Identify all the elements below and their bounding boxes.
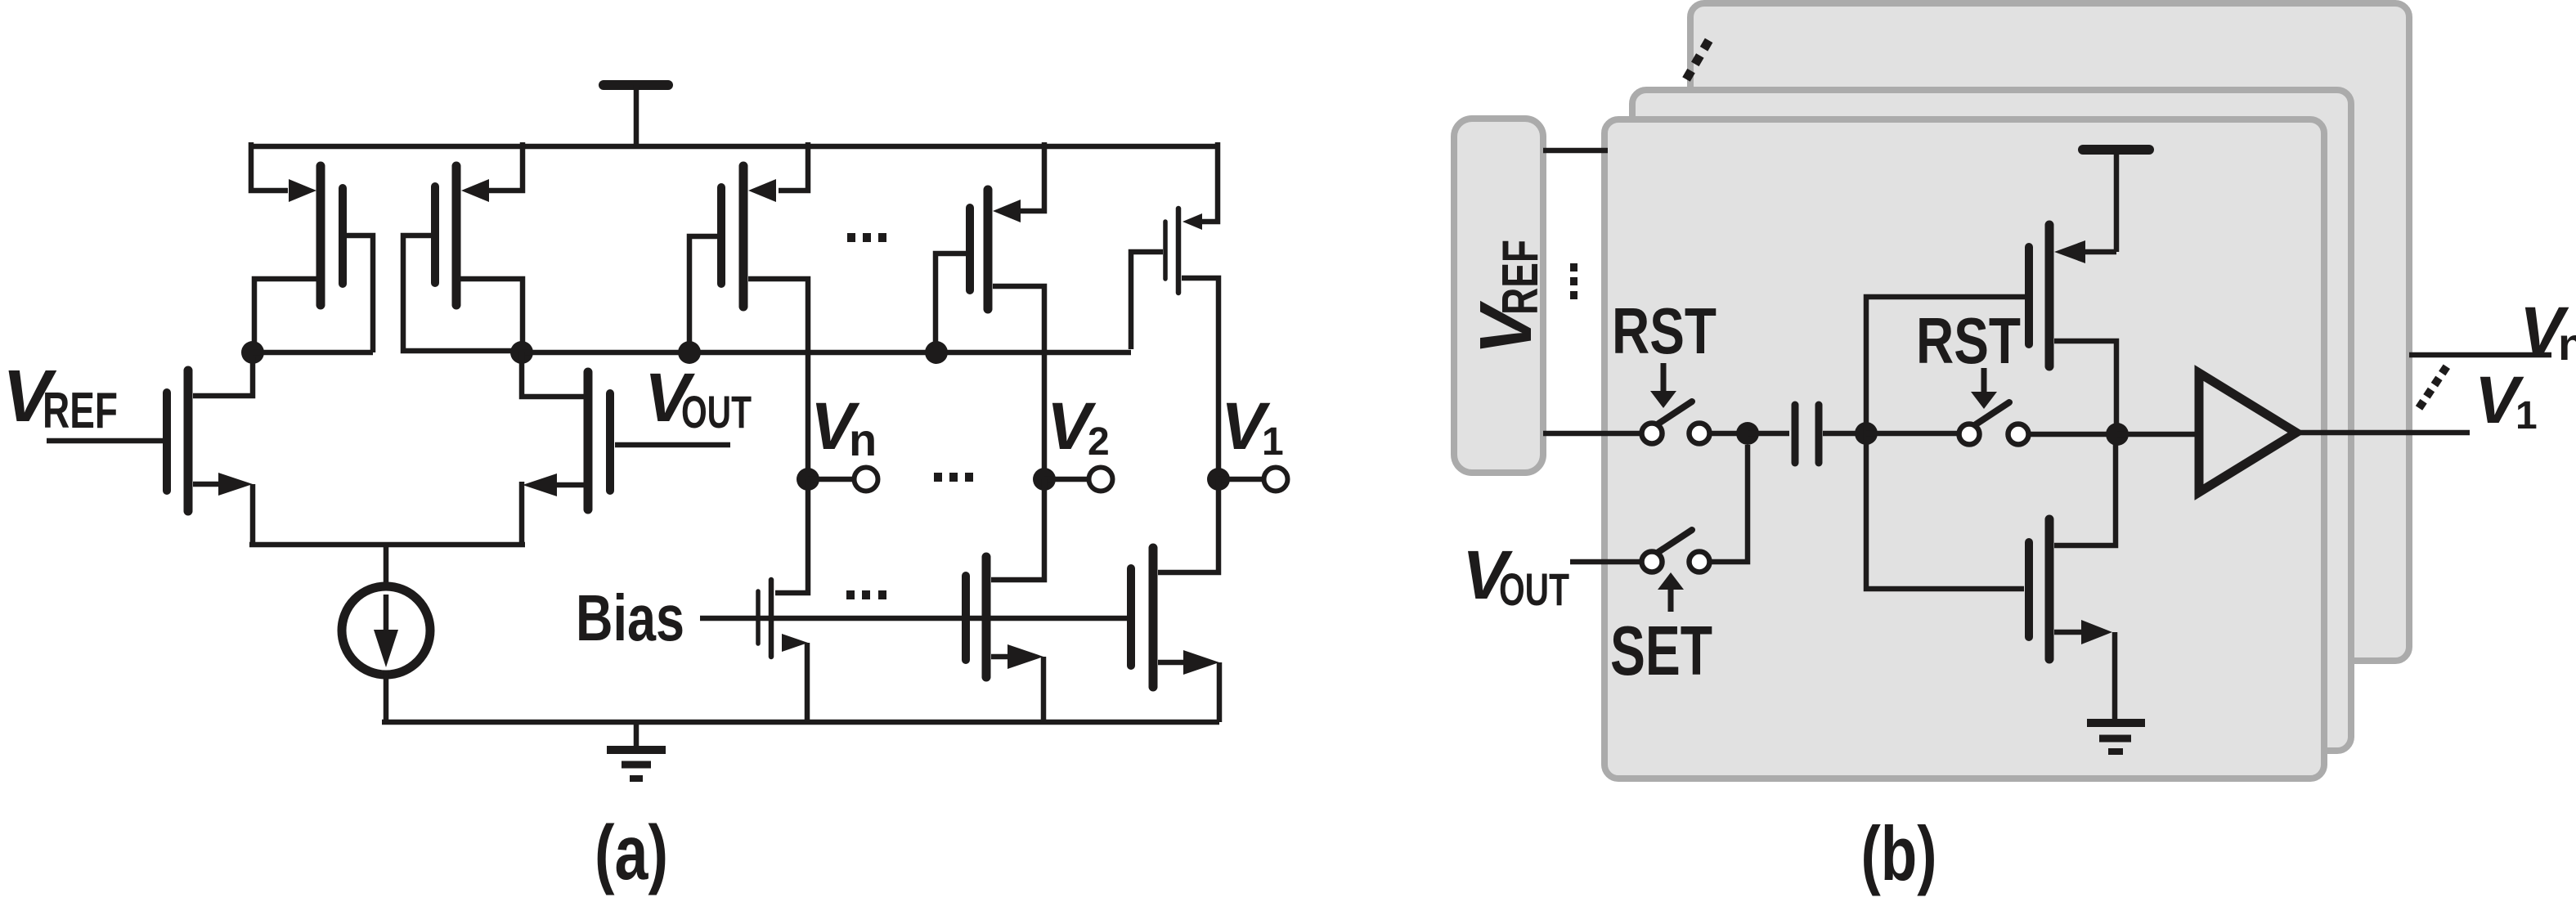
transistor M12 source drop: [2112, 632, 2118, 723]
node Vn dot: [797, 468, 819, 491]
switch S3 blade: [1658, 530, 1692, 552]
feedback wire top (node D to M11 gate): [1866, 297, 2025, 433]
transistor M3 source drop: [250, 484, 256, 545]
transistor M7 channel bar: [1176, 209, 1182, 293]
transistor M12 source arrow: [2081, 620, 2112, 644]
ellipsis between M5 and M6: [847, 233, 855, 242]
svg-text:OUT: OUT: [1499, 563, 1569, 615]
transistor M4 (NMOS, gate VOUT) drain wire: [522, 352, 584, 397]
transistor M10 source drop: [1217, 662, 1223, 722]
card (front cell): [1604, 119, 2324, 779]
transistor M11 drain wire: [2054, 341, 2116, 425]
node V1 terminal wire: [1218, 477, 1264, 482]
node V2 terminal wire: [1044, 477, 1089, 482]
node V1 open terminal: [1264, 468, 1288, 491]
transistor M1 drain wire: [254, 279, 317, 349]
transistor M8 (NMOS, Vn branch) drain wire: [775, 479, 808, 593]
gate bus junction dot 2: [925, 341, 948, 364]
wire node D to RST switch 2: [1866, 431, 1959, 437]
node D junction dot: [1855, 422, 1878, 445]
transistor M8 channel bar: [769, 580, 774, 657]
transistor M3 drain wire: [193, 357, 253, 396]
wire VREF to card top: [1543, 148, 1608, 154]
transistor M5 source arrow: [748, 179, 776, 202]
wire node C to capacitor: [1748, 431, 1789, 437]
switch S1 right contact: [1690, 424, 1710, 444]
wire VREF to RST switch: [1543, 431, 1642, 437]
svg-text:RST: RST: [1612, 294, 1717, 367]
transistor M7 drain wire: [1182, 278, 1218, 473]
transistor M3 channel bar: [184, 370, 193, 511]
ground symbol (panel b): [2087, 719, 2145, 727]
transistor M10 source wire: [1158, 660, 1186, 666]
transistor M4 source drop: [519, 482, 525, 545]
transistor M9 gate bar: [962, 576, 970, 660]
svg-text:1: 1: [1262, 420, 1284, 464]
switch S3 right contact: [1690, 552, 1710, 572]
transistor M6 gate wire: [936, 254, 966, 348]
card (back replica): [1690, 3, 2409, 661]
svg-text:REF: REF: [1492, 240, 1549, 315]
dotted ellipsis (more cards, top-left): [1686, 38, 1710, 79]
wire S2 to node E: [2029, 432, 2108, 438]
node A junction dot: [241, 341, 264, 364]
svg-text:REF: REF: [43, 383, 118, 439]
node B junction dot: [510, 341, 533, 364]
buffer amplifier U1: [2199, 373, 2296, 492]
transistor M7 gate bar: [1163, 222, 1168, 279]
VDD supply symbol (panel b): [2083, 145, 2149, 155]
transistor M7 source arrow: [1183, 213, 1202, 230]
wire SET to node C: [1710, 445, 1748, 562]
transistor M1 gate bar: [339, 188, 347, 284]
transistor M8 gate bar: [756, 591, 761, 644]
transistor M12 (NMOS) drain wire: [2054, 443, 2116, 545]
switch S2 right contact: [2008, 424, 2029, 445]
transistor M10 (NMOS, V1 branch) drain wire: [1158, 479, 1218, 572]
capacitor C1: [1792, 405, 1799, 463]
transistor M6 source arrow: [993, 200, 1021, 222]
transistor M1 source arrow: [289, 179, 316, 202]
transistor M3 source arrow: [218, 473, 253, 496]
svg-text:2: 2: [1088, 420, 1110, 464]
transistor M12 channel bar: [2045, 519, 2054, 659]
transistor M10 gate bar: [1127, 568, 1135, 666]
ground symbol (panel a): [607, 722, 666, 779]
transistor M12 source wire: [2054, 630, 2081, 635]
wire tail to current source: [384, 545, 389, 588]
gate bus wire: [522, 350, 1131, 356]
transistor M11 source arrow: [2054, 240, 2085, 263]
transistor M2 drain wire: [460, 279, 523, 349]
transistor M11 (PMOS) source arrow wire: [2085, 249, 2116, 255]
transistor M11 channel bar: [2045, 225, 2054, 366]
svg-text:(b): (b): [1861, 810, 1937, 896]
power rail VDD (top): [251, 144, 1218, 150]
wire current source to ground rail: [384, 671, 389, 722]
svg-text:1: 1: [2515, 394, 2538, 438]
node E junction dot: [2106, 423, 2129, 446]
gate bus junction dot 1: [678, 341, 701, 364]
wire buffer output V1: [2296, 430, 2470, 436]
current source I1: [342, 586, 430, 675]
arrow RST left: [1661, 363, 1667, 393]
ellipsis between Vn and V2: [934, 473, 942, 482]
switch S3 SET left contact: [1642, 552, 1663, 572]
transistor M1 gate wire: [347, 236, 373, 352]
node V1 dot: [1207, 468, 1230, 491]
dotted ellipsis (outputs): [2419, 366, 2447, 408]
node Vn open terminal: [855, 468, 878, 491]
transistor M4 source arrow: [523, 473, 557, 496]
transistor M7 gate wire: [1131, 252, 1163, 349]
wire VOUT to SET switch: [1570, 559, 1642, 565]
label VREF (rotated): [1465, 240, 1549, 355]
node V2 open terminal: [1089, 468, 1113, 491]
svg-text:SET: SET: [1610, 613, 1712, 690]
wire output Vn: [2409, 352, 2551, 358]
transistor M4 gate bar: [606, 393, 614, 491]
svg-text:OUT: OUT: [681, 386, 752, 438]
wire Bias: [700, 616, 1131, 622]
transistor M4 gate stub wire: [615, 442, 730, 448]
wire node E to buffer: [2117, 432, 2199, 438]
transistor M3 source wire: [193, 482, 229, 487]
transistor M2 (PMOS) source wire: [489, 142, 523, 191]
svg-text:n: n: [2558, 318, 2576, 370]
switch S2 RST left contact: [1959, 424, 1980, 445]
svg-text:n: n: [849, 414, 877, 465]
transistor M9 channel bar: [982, 557, 991, 677]
transistor M6 (PMOS) source wire: [1015, 142, 1044, 211]
transistor M2 source arrow: [461, 179, 489, 202]
card (middle replica): [1632, 90, 2351, 751]
transistor M10 source arrow: [1183, 650, 1219, 675]
wire VREF input: [47, 438, 163, 444]
switch S2 blade: [1976, 402, 2009, 424]
node V2 dot: [1033, 468, 1056, 491]
transistor M8 source drop: [805, 643, 810, 722]
feedback wire bottom (node D to M12 gate): [1866, 433, 2024, 589]
transistor M5 gate wire: [689, 236, 717, 348]
VDD supply symbol: [604, 85, 668, 146]
transistor M6 gate bar: [966, 208, 974, 290]
arrow SET: [1658, 572, 1684, 590]
transistor M9 source drop: [1041, 657, 1047, 722]
vertical ellipsis near VREF: [1570, 263, 1577, 271]
transistor M9 (NMOS, V2 branch) drain wire: [991, 479, 1044, 580]
transistor M1 channel bar: [316, 166, 325, 305]
transistor M4 source wire: [557, 482, 584, 488]
transistor M1 (PMOS) source wire: [251, 142, 288, 191]
ellipsis between M8 and M9: [846, 590, 855, 599]
transistor M6 channel bar: [984, 190, 993, 309]
transistor M5 drain wire: [748, 279, 808, 473]
transistor M5 channel bar: [739, 166, 748, 307]
transistor M6 drain wire: [993, 286, 1044, 473]
node Vn terminal wire: [808, 477, 855, 482]
node C junction dot: [1736, 422, 1759, 445]
arrow RST right: [1981, 368, 1987, 393]
transistor M9 source arrow: [1008, 644, 1043, 669]
svg-text:(a): (a): [595, 810, 668, 896]
wire node A to M1 gate: [253, 350, 373, 356]
switch S1 blade: [1658, 402, 1692, 424]
transistor M11 gate bar: [2025, 247, 2033, 344]
tail wire of differential pair: [249, 542, 525, 548]
svg-text:Bias: Bias: [576, 581, 684, 654]
wire capacitor to node D: [1823, 431, 1856, 437]
transistor M9 source wire: [991, 654, 1014, 660]
ground rail (bottom): [382, 720, 1219, 725]
transistor M2 channel bar: [452, 166, 461, 305]
transistor M10 channel bar: [1149, 548, 1158, 687]
VREF bus bar: [1454, 119, 1543, 473]
transistor M7 (PMOS) source wire: [1197, 142, 1218, 222]
transistor M12 gate bar: [2025, 542, 2033, 637]
wire S1 to node C: [1710, 431, 1739, 437]
transistor M4 channel bar: [584, 372, 593, 509]
transistor M5 gate bar: [717, 187, 725, 284]
svg-text:RST: RST: [1916, 304, 2021, 377]
transistor M8 source arrow: [782, 634, 808, 652]
transistor M3 (NMOS input) gate bar: [163, 393, 171, 491]
transistor M2 gate wire: [403, 236, 518, 351]
transistor M5 (PMOS) source wire: [779, 142, 808, 191]
transistor M2 gate bar: [431, 186, 439, 283]
switch S1 RST left contact: [1642, 424, 1663, 444]
